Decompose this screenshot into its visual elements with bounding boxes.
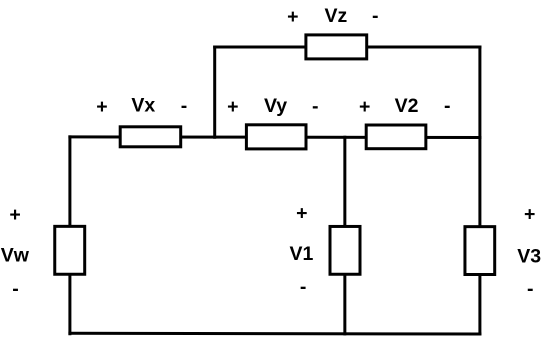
component Vw (box) [55, 226, 85, 274]
svg-text:-: - [444, 95, 451, 117]
wire: right vertical branch through V3 [478, 46, 481, 336]
component V2 (box) [366, 125, 426, 149]
svg-text:-: - [372, 5, 379, 27]
wire: bottom horizontal return [68, 332, 481, 336]
svg-text:+: + [96, 96, 107, 118]
svg-text:V3: V3 [517, 245, 541, 267]
component Vx (box) [120, 127, 181, 147]
wire: left vertical branch through Vw [68, 135, 71, 335]
svg-text:V1: V1 [289, 243, 313, 265]
component V1 (box) [330, 226, 360, 274]
wire: middle horizontal bus y=136 from left branch to right branch [68, 135, 481, 139]
svg-text:Vw: Vw [1, 245, 30, 267]
svg-text:+: + [287, 6, 298, 28]
svg-text:+: + [359, 96, 370, 118]
wire: top horizontal from node above Vx/Vy to right edge [213, 46, 481, 49]
svg-text:+: + [524, 204, 535, 226]
svg-text:+: + [9, 204, 20, 226]
svg-text:Vy: Vy [264, 95, 287, 117]
svg-text:-: - [312, 95, 319, 117]
wire: middle vertical branch through V1 [343, 136, 346, 336]
svg-text:+: + [227, 96, 238, 118]
svg-text:V2: V2 [395, 95, 419, 117]
svg-text:-: - [181, 95, 188, 117]
component Vz (box) [306, 35, 367, 59]
svg-text:Vx: Vx [131, 94, 155, 116]
svg-text:-: - [300, 276, 307, 298]
svg-text:-: - [12, 278, 19, 300]
component V3 (box) [465, 227, 495, 275]
svg-text:+: + [296, 202, 307, 224]
svg-text:Vz: Vz [325, 5, 348, 27]
svg-text:-: - [527, 278, 534, 300]
wire: vertical from top wire down to middle bus (node between Vx and Vy) [213, 46, 216, 139]
component Vy (box) [246, 125, 306, 149]
